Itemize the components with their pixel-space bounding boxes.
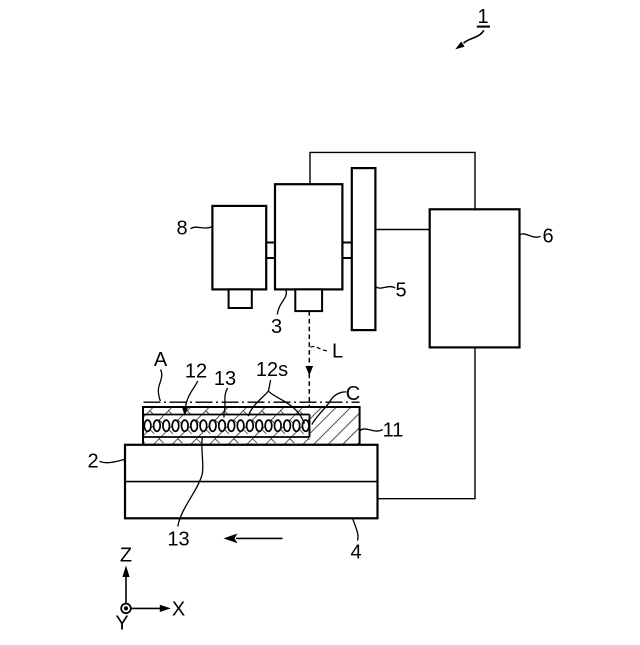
label 3 [271,290,286,338]
label 4 [350,519,361,564]
Z axis [125,577,127,608]
connector between box 8 and box 3 [266,243,275,259]
X axis [126,607,163,609]
label L [311,341,344,363]
svg-text:C: C [346,383,360,405]
stage 2 [125,445,378,519]
box 8 [212,206,266,290]
wire from box6 bottom to stage [378,347,476,498]
svg-text:11: 11 [383,420,404,442]
svg-text:X: X [172,599,185,621]
svg-text:13: 13 [214,368,236,390]
label 13 (lower) [167,438,202,551]
svg-text:1: 1 [477,6,488,28]
dash-dot line C (planned cutting line) [144,401,360,403]
label 2 [87,450,124,472]
coordinate axes [115,545,185,635]
laser beam arrowhead [306,366,314,376]
svg-text:6: 6 [542,225,553,247]
label 11 [360,420,403,442]
svg-text:5: 5 [395,280,406,302]
svg-text:12s: 12s [256,359,288,381]
label 13 (upper) [214,368,236,418]
label 6 [520,225,554,247]
svg-text:12: 12 [185,361,207,383]
nozzle of box 3 [295,289,322,311]
svg-text:13: 13 [167,529,189,551]
box 5 (plate) [352,168,376,330]
svg-text:Y: Y [115,613,128,635]
svg-text:L: L [332,341,343,363]
label 5 [375,280,406,302]
laser beam L dashed line [308,311,310,406]
wire from box3 top to box6 top [310,152,475,209]
label C [312,383,360,425]
box 3 (laser head) [275,184,342,289]
svg-text:A: A [154,349,168,371]
connector between box 3 and box 5 [342,243,351,259]
svg-text:3: 3 [271,316,282,338]
workpiece 11 hatched block [143,407,360,445]
modified spots row (ellipses) [144,420,309,431]
svg-text:Z: Z [120,545,132,567]
label 1 (figure number) [455,6,490,50]
movement arrow [224,534,283,544]
box 6 (controller) [430,209,520,347]
stage divider line [125,481,378,483]
svg-text:4: 4 [350,542,361,564]
svg-text:8: 8 [176,218,187,240]
wire from box5 to box6 [375,229,429,231]
origin symbol [121,604,131,614]
label 8 [176,218,212,240]
nozzle of box 8 [229,289,252,308]
modified layer band boundary lines [143,415,310,438]
label 12s with double leader [248,359,304,424]
label 12 with arrow [182,361,207,416]
label A [154,349,168,401]
svg-text:2: 2 [87,450,98,472]
